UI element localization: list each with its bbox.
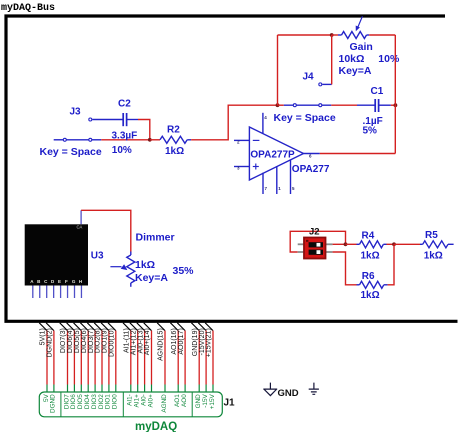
- svg-text:7: 7: [265, 186, 268, 191]
- wire J2 pin to junction: [333, 243, 346, 245]
- svg-text:AI0+: AI0+: [147, 394, 154, 408]
- svg-text:4: 4: [264, 115, 267, 120]
- wire J2 lower pin to R6: [333, 252, 357, 285]
- wire R4 to junction 2: [387, 243, 395, 245]
- resistor R4: [360, 241, 384, 248]
- svg-text:J2: J2: [309, 227, 320, 238]
- svg-text:DIO0(10): DIO0(10): [109, 328, 116, 357]
- svg-text:+15V: +15V: [209, 393, 216, 409]
- svg-text:Dimmer: Dimmer: [136, 231, 175, 243]
- op-amp U1 triangle: [249, 127, 303, 180]
- junction R2/J4/feedback: [276, 103, 280, 107]
- wire C2 right lead: [127, 119, 138, 121]
- op-amp U1 plus sign: [253, 166, 259, 168]
- wire C2 left lead: [92, 119, 123, 121]
- potentiometer Dimmer: [127, 255, 135, 283]
- svg-text:OPA277P: OPA277P: [250, 150, 295, 161]
- junction C1/right vertical: [394, 103, 398, 107]
- svg-text:Key=A: Key=A: [135, 272, 168, 284]
- op-amp U1 non-inverting input pin: [234, 166, 249, 168]
- capacitor C1 plates: [374, 99, 376, 112]
- bus entries (diagonals): [39, 323, 47, 331]
- svg-text:R2: R2: [167, 125, 180, 136]
- svg-text:AGND: AGND: [161, 394, 168, 413]
- svg-text:J3: J3: [70, 106, 82, 117]
- svg-text:Key = Space: Key = Space: [40, 146, 102, 158]
- svg-text:10%: 10%: [378, 53, 400, 65]
- op-amp U1 inverting input pin: [234, 139, 249, 141]
- svg-text:1kΩ: 1kΩ: [135, 259, 155, 271]
- connector J2 left pins: [298, 243, 304, 245]
- svg-text:myDAQ-Bus: myDAQ-Bus: [1, 3, 55, 14]
- svg-text:R4: R4: [362, 231, 375, 242]
- op-amp U1 top pin 4: [262, 113, 264, 134]
- svg-text:CA: CA: [77, 225, 83, 230]
- wire feedback top run: [278, 34, 332, 36]
- op-amp U1 bottom pin 7: [262, 173, 264, 194]
- potentiometer Dimmer wiper arrow: [110, 266, 121, 268]
- wire junction to R2: [150, 139, 160, 141]
- wire feedback left vertical: [277, 35, 279, 105]
- wires bus to J1 connector: [46, 331, 48, 385]
- wire U3 to Dimmer: [81, 210, 131, 251]
- op-amp U1 output pin 6: [304, 153, 320, 155]
- junction Gain/J4-throw: [330, 33, 334, 37]
- IC U3 top pin CA: [80, 210, 82, 224]
- svg-text:J1: J1: [224, 397, 236, 408]
- svg-text:AO0: AO0: [181, 394, 188, 407]
- svg-text:1: 1: [278, 186, 281, 191]
- wire R2 up to J4 row: [191, 105, 277, 140]
- svg-text:U3: U3: [91, 250, 104, 261]
- wire C1 to right vertical: [391, 104, 396, 106]
- op-amp U1 bottom pin 5: [290, 160, 292, 194]
- svg-text:35%: 35%: [173, 265, 195, 277]
- IC U3 body: [25, 224, 88, 285]
- wire J3 to C2 junction: [101, 139, 150, 141]
- connector J2 body: [304, 238, 326, 259]
- connector J2 right pins: [326, 243, 333, 245]
- svg-text:DIO0: DIO0: [112, 394, 119, 409]
- switch J3 right stub: [90, 139, 101, 141]
- switch J4 throw terminal: [319, 83, 322, 86]
- svg-text:10kΩ: 10kΩ: [339, 53, 365, 65]
- svg-text:AGND(15): AGND(15): [158, 328, 165, 361]
- svg-text:+15V(21): +15V(21): [206, 328, 213, 357]
- J1 pin stubs: [46, 385, 48, 393]
- wire junction to Gain: [332, 34, 338, 36]
- ground earth symbol: [309, 383, 319, 395]
- wire junction to R4: [346, 243, 357, 245]
- op-amp U1 bottom pin 1: [276, 166, 278, 194]
- switch J3 terminal 1: [63, 138, 66, 141]
- svg-text:DGND: DGND: [50, 394, 57, 413]
- svg-text:Gain: Gain: [350, 41, 373, 53]
- IC U3 bottom pins: [32, 286, 34, 299]
- wire Gain to right vertical: [369, 34, 395, 36]
- svg-text:myDAQ: myDAQ: [135, 421, 177, 432]
- connector J1 group separators: [60, 392, 62, 417]
- potentiometer Gain: [342, 32, 367, 39]
- switch J3 lever: [65, 139, 91, 141]
- wire junction2 to R5: [394, 243, 420, 245]
- capacitor C2 plates: [122, 113, 124, 126]
- resistor R5: [423, 241, 448, 248]
- wire R2 lead right: [187, 139, 191, 141]
- switch J4 terminal 2: [319, 104, 322, 107]
- connector J1 outline: [39, 392, 222, 417]
- svg-text:R6: R6: [362, 271, 375, 282]
- svg-text:AI0+(14): AI0+(14): [144, 328, 151, 355]
- svg-text:1kΩ: 1kΩ: [424, 250, 443, 261]
- bus myDAQ-Bus (thick black routing): [6, 16, 458, 321]
- svg-text:1kΩ: 1kΩ: [165, 146, 184, 157]
- resistor R2: [160, 136, 187, 143]
- junction R4/R5/R6: [392, 242, 396, 246]
- junction C2/J3/R2: [148, 138, 152, 142]
- resistor R6: [360, 281, 384, 288]
- wire junction to J4: [278, 104, 284, 106]
- switch J3 terminal 2: [89, 138, 92, 141]
- wire C1 right lead: [379, 104, 391, 106]
- svg-text:10%: 10%: [112, 145, 132, 156]
- svg-text:Key = Space: Key = Space: [274, 112, 336, 124]
- op-amp U1 minus sign: [253, 139, 260, 141]
- svg-text:F: F: [65, 279, 68, 284]
- wire op-amp output run: [320, 153, 396, 155]
- svg-text:GND: GND: [278, 388, 299, 399]
- svg-text:R5: R5: [425, 230, 438, 241]
- svg-text:OPA277: OPA277: [292, 164, 330, 175]
- switch J3 throw terminal: [89, 118, 92, 121]
- svg-text:H: H: [79, 279, 82, 284]
- wire J4 throw to Gain junction: [331, 35, 333, 84]
- svg-text:E: E: [58, 279, 61, 284]
- svg-text:C2: C2: [118, 99, 131, 110]
- wire J4 throw stub: [322, 83, 332, 85]
- svg-text:1kΩ: 1kΩ: [361, 250, 380, 261]
- switch J4 terminal 1: [293, 104, 296, 107]
- junction J2/R4: [344, 242, 348, 246]
- svg-text:5: 5: [292, 186, 295, 191]
- wire C2 to junction: [138, 120, 150, 140]
- svg-text:3.3µF: 3.3µF: [112, 130, 138, 141]
- ground GND symbol: [263, 383, 277, 396]
- svg-text:C1: C1: [371, 86, 384, 97]
- switch J4 body: [284, 104, 332, 106]
- svg-text:J4: J4: [303, 71, 315, 82]
- wire feedback right vertical: [394, 35, 396, 154]
- wire J3 left stub row: [54, 139, 67, 141]
- svg-text:G: G: [72, 279, 76, 284]
- potentiometer Gain wiper arrow: [358, 16, 362, 27]
- wire R6 up to junction 2: [388, 244, 394, 284]
- wire J4 to C1: [331, 104, 357, 106]
- wire C1 left lead: [357, 104, 375, 106]
- svg-text:Key=A: Key=A: [339, 65, 372, 77]
- svg-text:DGND(2): DGND(2): [47, 328, 54, 357]
- wire J2 loop left vertical: [290, 231, 345, 252]
- svg-text:5%: 5%: [363, 126, 378, 137]
- svg-text:AO0(17): AO0(17): [178, 328, 185, 354]
- svg-text:1kΩ: 1kΩ: [361, 290, 380, 301]
